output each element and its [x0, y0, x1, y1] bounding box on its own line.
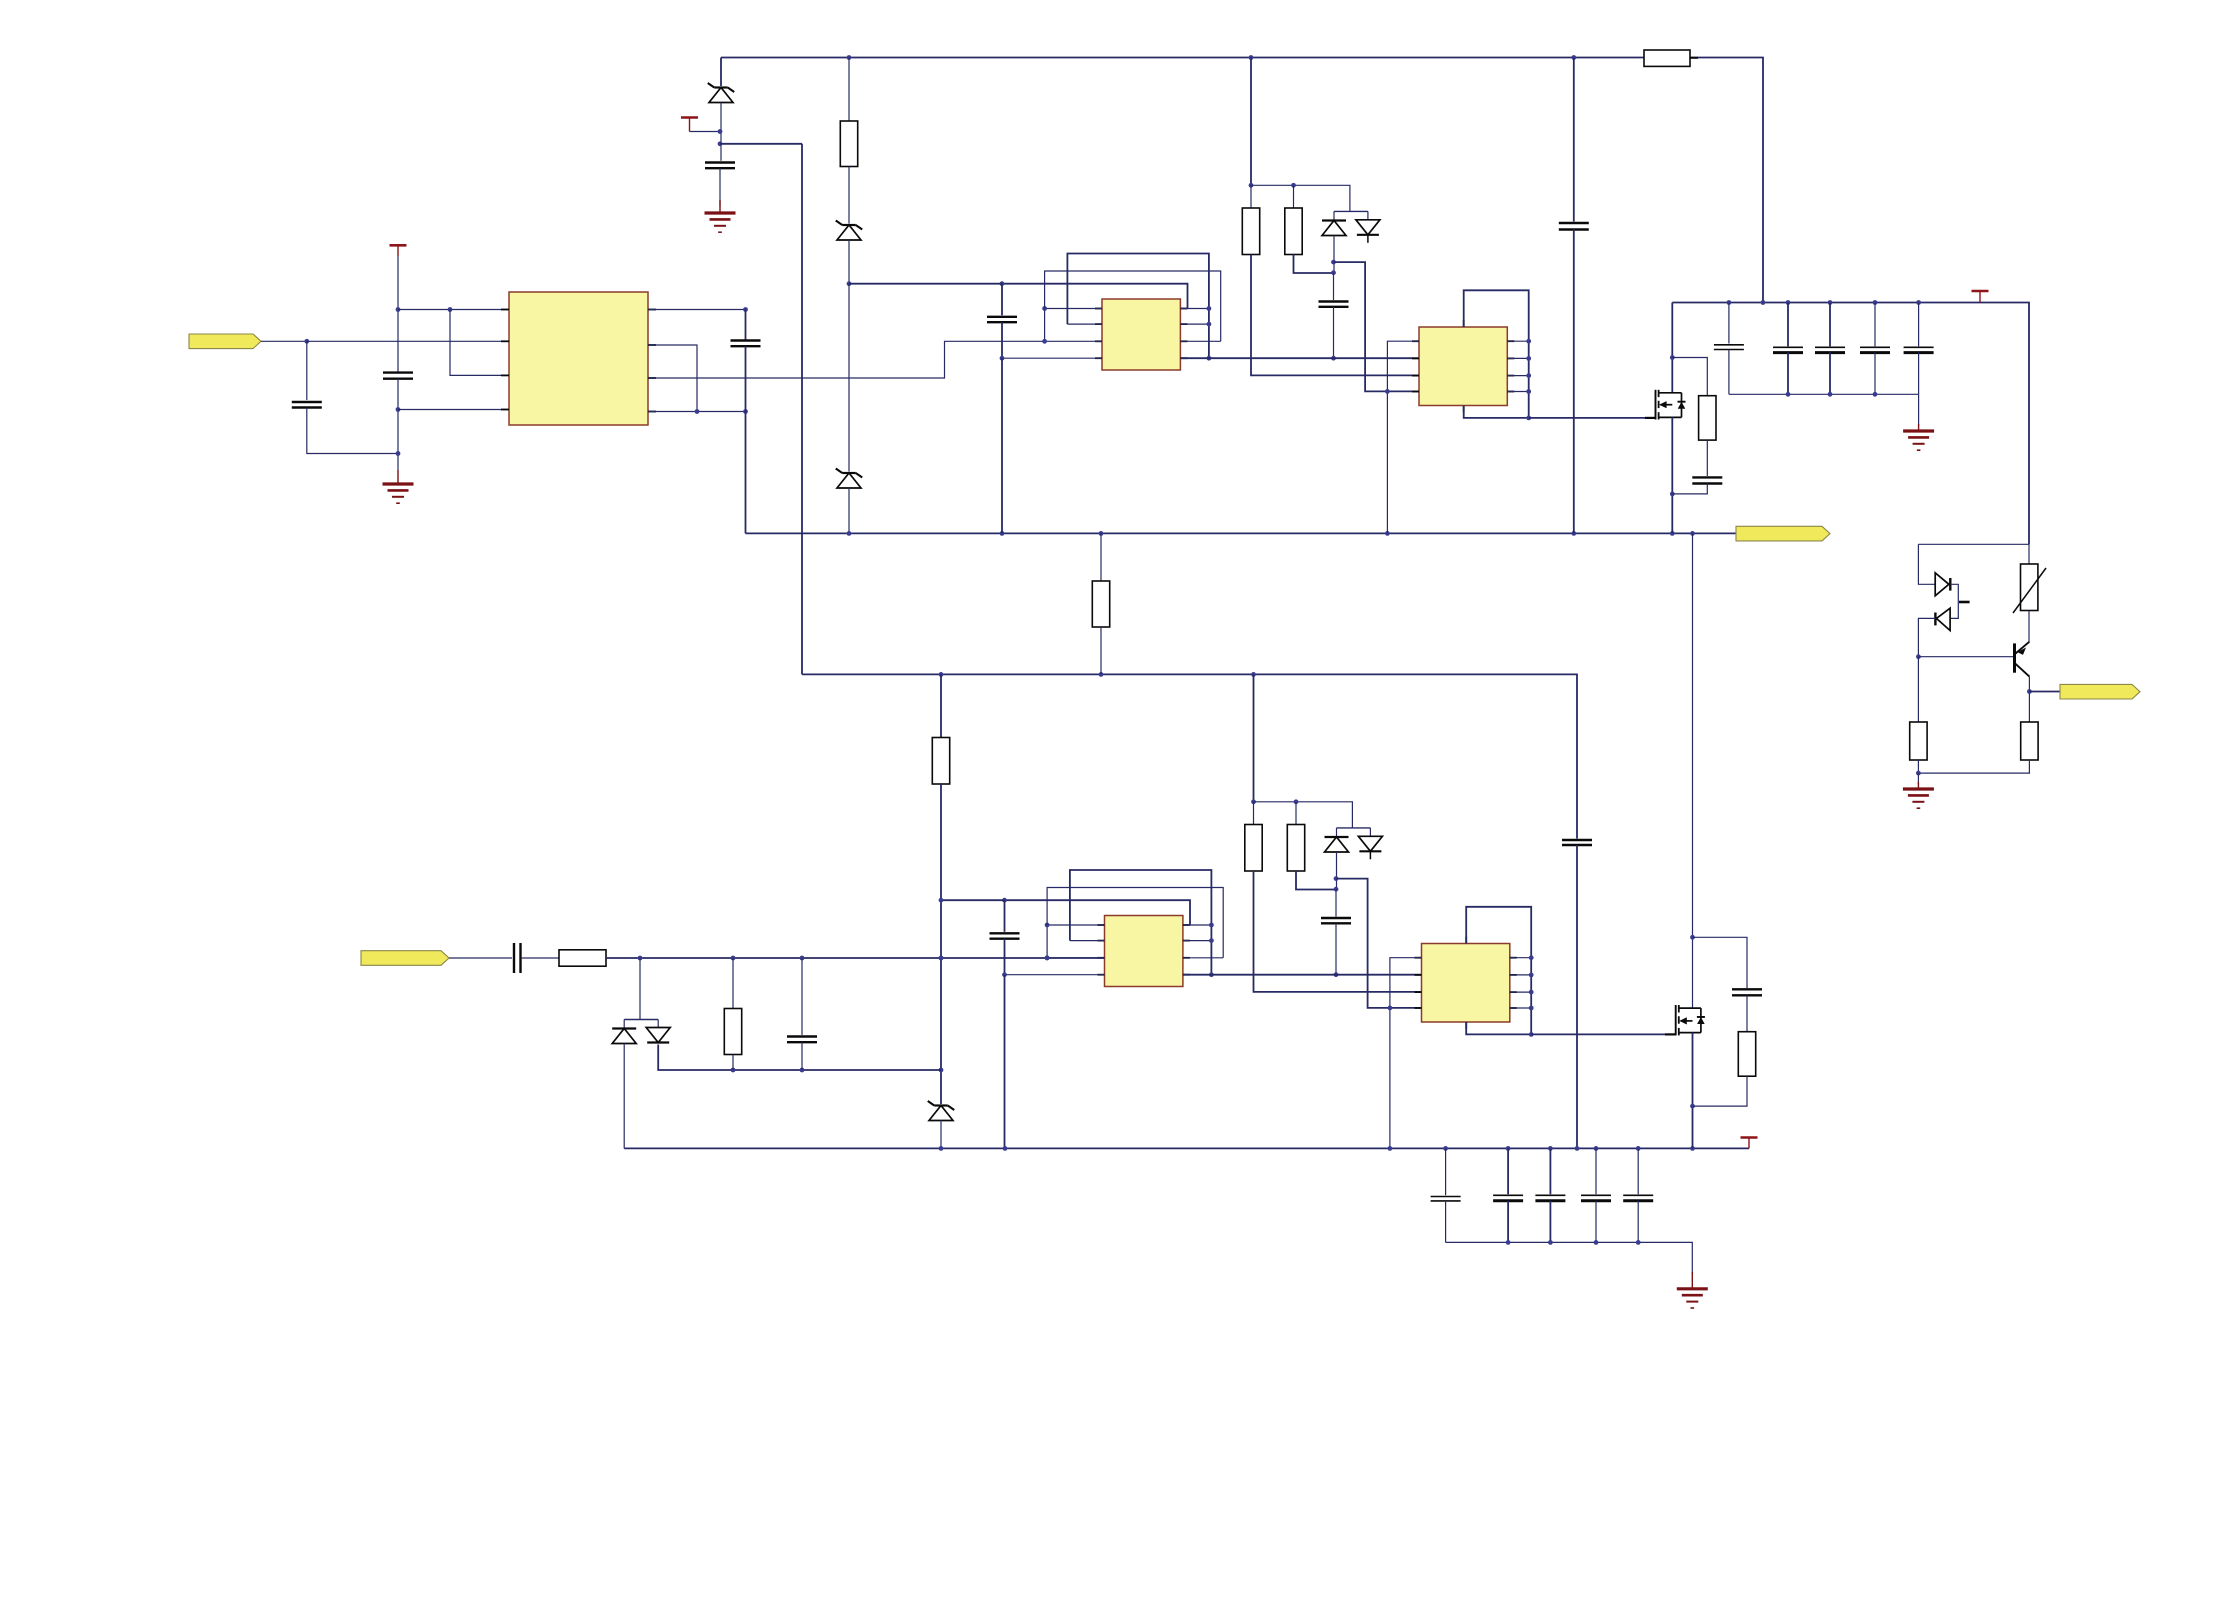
node ch1 capL2 — [1331, 356, 1336, 361]
gate driver ch2U — [1422, 944, 1510, 1023]
wire ch1 P3 row — [1045, 340, 1102, 342]
wire bank1 cap1 lower — [1728, 350, 1730, 395]
wire bank1 cap4 lower — [1874, 353, 1876, 395]
resistor R6 — [1910, 722, 1927, 760]
resistor ch2Ra — [1245, 825, 1262, 872]
wire bank1 cap4 leads — [1874, 303, 1876, 347]
wire ch2 x1002 upper — [1004, 900, 1006, 932]
wire ch1 cap to L2row — [1333, 307, 1335, 358]
pin stub R1 — [1690, 57, 1698, 59]
node bus1 junctions — [847, 531, 1695, 536]
node ch2 feed — [1251, 799, 1256, 804]
wire ch1 Dp2 stub — [1367, 211, 1369, 219]
IC U1 converter — [509, 292, 648, 425]
wire bank2 cap3 lower — [1549, 1201, 1551, 1243]
node H — [939, 956, 944, 1073]
node ch1 divider — [1331, 260, 1336, 275]
node Q3 source — [1690, 1104, 1695, 1109]
wire bank2 cap2 lower — [1507, 1201, 1509, 1243]
ground GND4 — [1903, 782, 1934, 808]
node F — [396, 407, 401, 456]
wire R4 to input row — [940, 784, 942, 1104]
wire ch2 to L4 riser — [1336, 879, 1422, 1008]
capacitor C10 snubber — [1732, 989, 1762, 995]
wire ch1 U pinR — [1507, 375, 1528, 377]
wire ch2 P1 row — [1047, 924, 1104, 926]
transformer ch1T — [1102, 299, 1180, 370]
resistor ch1Rb — [1285, 208, 1302, 255]
wire D4 to bus3 — [940, 1121, 942, 1150]
capacitor ch2Cp — [990, 933, 1020, 938]
wire D7 to bus3 — [623, 1044, 625, 1149]
wire bank1 cap5 lower — [1918, 353, 1920, 395]
wire ch2 U bottom pin — [1466, 1022, 1531, 1034]
wire node to x802 riser — [720, 143, 802, 145]
wire bank1 cap5 leads — [1918, 303, 1920, 347]
pin stubs ch2U vert — [1465, 937, 1467, 1030]
capacitor C11 bank1 — [1773, 347, 1803, 352]
wire ch2 P4-L2 row — [1183, 974, 1422, 976]
transformer ch2T — [1105, 916, 1183, 987]
wire ch2 P2 row — [1070, 940, 1105, 942]
gate driver ch1U — [1419, 327, 1507, 406]
wire vout1 to Q3 drain — [1692, 533, 1694, 1008]
wire ch2 feed drop — [1253, 674, 1255, 801]
diode ch2Dp2 — [1358, 836, 1382, 859]
wire R6 bottom — [1917, 760, 1919, 773]
wire ch1 Dp1 anode — [1333, 236, 1335, 273]
wire ch2 U pinR — [1510, 1007, 1531, 1009]
wire IC1 pin1 row — [398, 309, 509, 311]
capacitor C1 — [705, 163, 735, 169]
wire ch2 diode bracket — [1337, 827, 1371, 829]
capacitor ch1Cc — [1319, 302, 1349, 307]
wire ch2 P1r row — [1183, 924, 1212, 926]
wire ch1 x1002 upper — [1001, 284, 1003, 316]
wire ch1 P4 row — [1002, 357, 1102, 359]
winding loop ch2W1 — [1070, 870, 1212, 975]
zener diode D1 — [708, 83, 735, 103]
wire ch2 cap leg — [1335, 889, 1337, 916]
wire ch2 left pin link — [1046, 925, 1048, 958]
node A — [718, 129, 723, 146]
node gnd4 — [1916, 771, 1921, 776]
wire R9 top lead — [732, 958, 734, 1009]
node ch2 L4 — [1388, 1006, 1393, 1011]
capacitor C5 — [1562, 840, 1592, 845]
node ch1 leftpins — [1042, 306, 1047, 344]
wire ch1 feed drop — [1250, 58, 1252, 186]
wire U1 rowD — [648, 411, 746, 413]
wire bank1 cap2 leads — [1787, 303, 1789, 347]
wire RV top lead — [2028, 544, 2030, 564]
ground GND2 — [383, 470, 414, 503]
wire ch1 Rb bottom — [1294, 255, 1334, 274]
capacitor C7 snubber — [1692, 477, 1722, 483]
transistor Q2 — [2015, 642, 2030, 677]
wire ch1 winding feed — [849, 283, 1002, 285]
resistor R8 series — [559, 950, 606, 966]
wire VIN row to IC1 — [307, 340, 509, 342]
wire ch2 P3 row — [1047, 957, 1104, 959]
node ch2 feed2 — [1294, 799, 1299, 804]
varistor RV1 — [2013, 564, 2046, 613]
wire bank1 cap2 lower — [1787, 353, 1789, 395]
node row1070 — [731, 1068, 805, 1073]
wire Dp drop — [639, 958, 641, 1020]
node ch2 x1002 P4 — [1002, 972, 1007, 977]
wire ch2 U pinR — [1510, 974, 1531, 976]
node ch2 x1002 top — [1002, 898, 1007, 903]
node rail junctions — [1727, 300, 1922, 305]
winding loop ch1W1 — [1067, 254, 1209, 359]
node bus3 junctions — [939, 1146, 1695, 1151]
wire ch1 U pinL1 — [1387, 341, 1419, 533]
resistor R7 — [2021, 722, 2038, 760]
wire bus1 output rail — [746, 532, 1737, 534]
resistor ch1Ra — [1242, 208, 1259, 255]
wire R2 to D2 — [848, 167, 850, 224]
node ch1 x1002 P4 — [1000, 356, 1005, 361]
wire ch2 U pinR — [1510, 957, 1531, 959]
resistor R4 — [932, 738, 949, 785]
resistor R3 — [1092, 581, 1109, 627]
mosfet Q1 — [1656, 390, 1686, 420]
diode D8 — [646, 1028, 670, 1043]
diode ch2Dp1 — [1325, 837, 1349, 852]
wire C9 top lead — [801, 958, 803, 1035]
resistor R2 — [840, 121, 857, 167]
node ch1 rightpins — [1207, 306, 1212, 361]
node B — [847, 281, 852, 286]
wire ch1 U bottom pin — [1464, 406, 1529, 418]
node top-bus junctions — [847, 55, 1577, 60]
wire bank1 cap1 leads — [1728, 303, 1730, 344]
wire ch2 U pinL1 — [1390, 958, 1422, 1150]
wire C2 branch — [306, 341, 308, 400]
wire ch1 P2r row — [1180, 323, 1209, 325]
wire bank2 cap4 upper — [1595, 1148, 1597, 1194]
wire snubber2 bottom — [1693, 1076, 1748, 1106]
capacitor C14 bank1 — [1904, 347, 1934, 352]
wire ch2 U pinR — [1510, 991, 1531, 993]
tap stub — [1959, 601, 1970, 604]
capacitor C10 bank1 — [1714, 345, 1744, 350]
wire gnd4 stem — [1917, 773, 1919, 784]
wire C9 bottom lead — [801, 1042, 803, 1070]
wire bus3 rail — [624, 1147, 1749, 1149]
ground GND1 — [705, 200, 736, 232]
wire top supply bus — [721, 57, 1644, 59]
wire Dp bracket2 — [624, 1019, 658, 1021]
wire Q2 collector — [2028, 677, 2030, 722]
wire VCC1 stub — [690, 131, 721, 133]
wire D5-D6 link — [1950, 584, 1958, 618]
wire snubber1 bottom — [1672, 484, 1707, 494]
wire ch2 Ra to pinL3 — [1254, 871, 1422, 992]
net label VIN — [189, 334, 261, 349]
node input row — [638, 956, 1050, 961]
wire ch1 Ra to pinL3 — [1251, 255, 1419, 376]
resistor R1 (series top) — [1644, 50, 1690, 66]
node bank1 lower junctions — [1786, 392, 1878, 397]
wire snubber2 mid — [1746, 995, 1748, 1031]
capacitor C9 — [787, 1037, 817, 1043]
capacitor C12 bank1 — [1815, 347, 1845, 352]
wire x1574 lower — [1573, 230, 1575, 534]
wire ch1 U pinR — [1507, 391, 1528, 393]
zener diode D4 — [928, 1101, 955, 1121]
wire U1 rowB — [648, 345, 697, 412]
node ch1 gate node — [1526, 416, 1531, 421]
wire ch1 feed row — [1251, 185, 1350, 211]
zener diode D3 — [836, 469, 863, 489]
wire rail top y303 — [1672, 303, 2029, 545]
wire C8 to R8 — [521, 957, 559, 959]
wire C2 return — [307, 408, 398, 454]
wire left divider — [1917, 657, 1919, 722]
wire D6 to base node — [1918, 618, 1935, 656]
pin stubs ch2T — [1098, 925, 1190, 975]
wire ch1 P1 row — [1045, 308, 1102, 310]
wire input row ch2 — [606, 957, 1105, 959]
node ch2 U pinsR — [1529, 955, 1534, 1010]
power flag VCC3 — [1972, 291, 1989, 303]
wire R3 leads — [1100, 533, 1102, 581]
wire Q1 source drop — [1671, 417, 1673, 533]
pin stubs ch2U — [1415, 958, 1517, 1008]
wire ch2 P2r row — [1183, 940, 1212, 942]
wire bank1 gnd stem — [1918, 394, 1920, 426]
wire ch2 Dp1 anode — [1336, 852, 1338, 889]
wire ch1 R_b top lead — [1293, 185, 1295, 208]
wire D2 to node B — [848, 240, 850, 284]
wire snubber1 top — [1672, 358, 1707, 396]
wire ch2 feed row — [1254, 802, 1353, 828]
node ch1 x1002 top — [1000, 281, 1005, 286]
capacitor C4 — [731, 341, 761, 347]
wire top bus to right corner — [1690, 58, 1763, 303]
wire ch1 Dp1 stub — [1333, 211, 1335, 219]
wire base link — [1918, 656, 2013, 658]
winding loop ch2W3 — [1005, 900, 1191, 925]
wire RV to Q2 — [2028, 611, 2030, 642]
wire snubber1 mid — [1706, 440, 1708, 476]
diode ch1Dp2 — [1356, 220, 1380, 243]
wire U1 rowA — [648, 309, 746, 311]
wire bank2 cap4 lower — [1595, 1201, 1597, 1243]
diode D5 — [1935, 573, 1950, 596]
capacitor C6 — [1559, 223, 1589, 230]
wire bank2 cap5 lower — [1637, 1201, 1639, 1243]
wire ch1 P4-L2 row — [1180, 357, 1419, 359]
node ch2 leftpins — [1045, 923, 1050, 961]
node G — [695, 307, 748, 414]
wire bank2 cap1 lower — [1445, 1201, 1447, 1243]
node ch1 feed2 — [1291, 183, 1296, 188]
wire D8 to row1070 — [658, 1045, 941, 1071]
wire riser x802 — [801, 144, 803, 675]
wire R4 top lead — [940, 674, 942, 737]
wire R2 top lead — [848, 58, 850, 122]
node ch2 divider — [1334, 876, 1339, 891]
wire x745 to bus1 corner — [745, 346, 747, 533]
resistor R10 snubber — [1738, 1032, 1755, 1077]
node Q1 snub tap — [1670, 355, 1675, 360]
wire bank1 lower bus — [1729, 393, 1919, 395]
power flag VCC1 — [681, 118, 698, 132]
wire D1 to node — [720, 103, 722, 161]
wire IC1 pin4 row — [398, 409, 509, 411]
wire Q1 drain riser — [1671, 303, 1673, 393]
capacitor C3 — [383, 373, 413, 379]
wire ch1 to L4 riser — [1334, 262, 1420, 391]
pin stubs ch1T — [1095, 309, 1187, 359]
wire ch2 P3r row — [1183, 957, 1223, 959]
wire top-left drop — [720, 58, 722, 87]
wire R9 bottom lead — [732, 1055, 734, 1071]
node E — [448, 307, 453, 312]
capacitor C8 series — [514, 943, 521, 973]
node base — [1916, 654, 1921, 659]
node ch1 feed — [1249, 183, 1254, 188]
wire ch2 winding feed — [941, 899, 1005, 901]
capacitor C21 bank2 — [1493, 1195, 1523, 1201]
pin stubs ch1U vert — [1463, 320, 1465, 413]
wire ch1 x1002 lower — [1001, 322, 1003, 357]
node ch2 winding feed — [939, 898, 944, 903]
net label VOUT1 — [1736, 526, 1830, 541]
capacitor C13 bank1 — [1860, 347, 1890, 352]
wire ch1 left pin link — [1044, 309, 1046, 342]
wire VIN2 lead — [449, 957, 512, 959]
power flag VCC2 — [390, 245, 407, 256]
wire ch2 cap to L2row — [1335, 923, 1337, 974]
wire ch2 gate wire — [1531, 1033, 1676, 1035]
wire bank2 cap3 upper — [1549, 1148, 1551, 1194]
pin stubs U1 — [501, 310, 656, 412]
node ch2 rightpins — [1209, 923, 1214, 978]
wire ch1 P2 row — [1067, 323, 1102, 325]
wire bank2 cap5 upper — [1637, 1148, 1639, 1194]
wire ch1 x1002 tail — [1001, 358, 1003, 533]
wire ch1 P1r row — [1180, 308, 1209, 310]
node bus2 junctions — [939, 672, 1256, 677]
net label VOUT2 — [2060, 684, 2140, 699]
wire IC1 pin3 row — [450, 310, 509, 376]
node out2 — [2027, 689, 2032, 694]
wire bank2 lower bus — [1446, 1242, 1693, 1274]
wire bus2 rail — [802, 674, 1577, 838]
diode ch1Dp1 — [1322, 221, 1346, 236]
wire bank2 cap2 upper — [1507, 1148, 1509, 1194]
wire Q3 source drop — [1692, 1033, 1694, 1149]
ground GND5 — [1677, 1272, 1708, 1308]
resistor R9 — [724, 1009, 741, 1055]
wire reg top link — [1918, 543, 2029, 545]
wire bank2 cap1 upper — [1445, 1148, 1447, 1195]
capacitor C2 — [292, 402, 322, 408]
wire D3 to bus1 — [848, 488, 850, 533]
wire D2-D3 link — [848, 284, 850, 472]
wire ch2 R_a top lead — [1253, 802, 1255, 825]
wire ch1 U loop — [1464, 290, 1529, 418]
wire ch1 U pinR — [1507, 357, 1528, 359]
wire ch2 Dp2 stub — [1369, 828, 1371, 836]
wire ch2 x1002 tail — [1004, 975, 1006, 1149]
wire R7 bottom — [1918, 760, 2029, 773]
node Q1 source — [1670, 492, 1675, 497]
node bank2 lower junctions — [1506, 1240, 1641, 1245]
zener diode D2 — [836, 221, 863, 241]
wire out2 link — [2029, 691, 2060, 693]
wire ch2 R_b top lead — [1295, 802, 1297, 825]
wire snubber2 top — [1693, 937, 1748, 988]
ground GND3 — [1903, 424, 1934, 450]
pin stub Q1 gate — [1645, 417, 1656, 419]
wire ch2 Dp1 stub — [1336, 828, 1338, 836]
node C — [304, 339, 309, 344]
node D — [396, 307, 401, 312]
wire ch1 R_a top lead — [1250, 185, 1252, 208]
wire bank1 cap3 lower — [1829, 353, 1831, 395]
diode D7 — [612, 1029, 636, 1044]
wire x1577 lower — [1576, 845, 1578, 1150]
wire VCC2 riser upper — [397, 256, 399, 372]
capacitor C23 bank2 — [1581, 1195, 1611, 1201]
pin stubs ch1U — [1412, 341, 1514, 391]
wire ch2 P4 row — [1005, 974, 1105, 976]
wire Dp4 stub — [657, 1020, 659, 1028]
wire bank1 cap3 leads — [1829, 303, 1831, 347]
wire ch1 diode bracket — [1334, 210, 1368, 212]
resistor R5 snubber — [1699, 396, 1716, 440]
wire ch1 U pinR — [1507, 340, 1528, 342]
node ch2 gate node — [1529, 1032, 1534, 1037]
capacitor C20 bank2 — [1431, 1197, 1461, 1201]
wire ch1 gate wire — [1529, 417, 1656, 419]
resistor ch2Rb — [1287, 825, 1304, 872]
diode D6 — [1935, 608, 1950, 630]
node Q3 snub tap — [1690, 935, 1695, 940]
capacitor ch2Cc — [1321, 918, 1351, 923]
wire ch2 Rb bottom — [1296, 871, 1336, 890]
node ch1 U pinsR — [1526, 339, 1531, 394]
wire reg left upper — [1918, 544, 1934, 584]
wire R3 lower lead — [1100, 627, 1102, 674]
wire x745 upper — [745, 310, 747, 340]
wire ch2 U loop — [1466, 907, 1531, 1035]
wire VIN to node C — [261, 340, 307, 342]
wire C1 to ground — [719, 168, 721, 206]
net label VIN2 — [361, 951, 449, 966]
winding loop ch1W3 — [1002, 284, 1188, 309]
capacitor C24 bank2 — [1623, 1195, 1653, 1201]
wire U1 rowC — [648, 341, 1045, 378]
wire ch2 x1002 lower — [1004, 939, 1006, 974]
wire VCC2 riser lower — [397, 379, 399, 470]
pin stub Q3 gate — [1665, 1033, 1676, 1035]
capacitor C22 bank2 — [1535, 1195, 1565, 1201]
wire Dp3 stub — [623, 1020, 625, 1028]
capacitor ch1Cp — [987, 317, 1017, 322]
node ch2 capL2 — [1334, 972, 1339, 977]
winding loop ch1W2 — [1045, 271, 1221, 341]
winding loop ch2W2 — [1047, 888, 1223, 958]
wire ch1 cap leg — [1333, 273, 1335, 300]
wire x1574 upper — [1573, 58, 1575, 222]
mosfet Q3 — [1676, 1005, 1705, 1035]
